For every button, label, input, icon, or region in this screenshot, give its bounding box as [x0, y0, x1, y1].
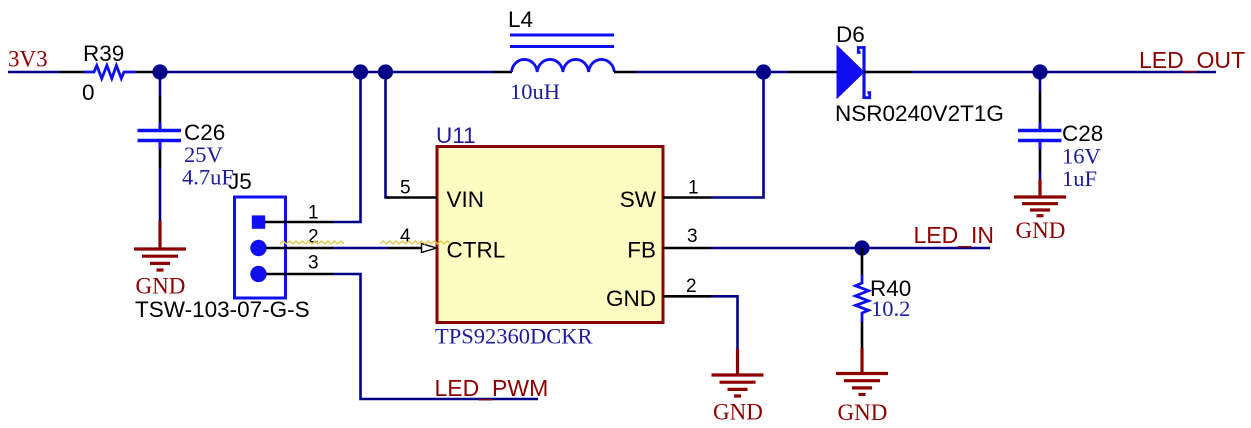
pin R40 top lead [861, 248, 864, 276]
svg-text:J5: J5 [228, 169, 252, 194]
op-amp U1 body (U11 regulator) [435, 123, 663, 349]
svg-text:GND: GND [606, 286, 656, 311]
pin D6 cathode lead [864, 71, 912, 74]
ground GND at C28 [1014, 179, 1066, 216]
pin U11-5 VIN [386, 196, 437, 199]
pin J5-2 lead [266, 247, 333, 250]
wire J5 pin3 to LED_PWM [333, 274, 538, 399]
svg-text:LED_IN: LED_IN [914, 222, 995, 248]
capacitor C26 [138, 120, 234, 190]
svg-text:3: 3 [308, 253, 319, 274]
pin U11-1 SW [663, 196, 711, 199]
pin R39 right lead [136, 71, 157, 74]
pin L4 right lead [614, 71, 636, 74]
node junction at R39/C26 [152, 64, 167, 79]
broken net squiggle right [380, 241, 450, 244]
svg-text:C28: C28 [1062, 121, 1103, 146]
node junction at J5 pin1 riser [353, 64, 368, 79]
svg-text:2: 2 [686, 276, 697, 297]
svg-text:GND: GND [136, 274, 186, 299]
connector J5 [135, 169, 310, 322]
broken net squiggle left [280, 241, 344, 244]
svg-text:0: 0 [82, 80, 95, 105]
wire D6 to LED_OUT [912, 71, 1216, 74]
pin C26 bottom lead [159, 149, 162, 168]
svg-text:GND: GND [838, 400, 888, 425]
pin R39 left lead [60, 71, 85, 74]
svg-text:D6: D6 [836, 22, 865, 47]
inductor L4 [508, 7, 614, 104]
svg-text:25V: 25V [184, 142, 223, 167]
svg-text:CTRL: CTRL [447, 238, 506, 263]
node junction at SW riser [756, 64, 771, 79]
node junction at R40 [854, 240, 869, 255]
pin U11-4 CTRL [388, 247, 422, 250]
svg-text:4.7uF: 4.7uF [182, 165, 234, 190]
wire main rail segment R39 to L4 [153, 71, 493, 74]
wire 3V3 to R39 [8, 71, 60, 74]
pin U11-3 FB [663, 247, 711, 250]
svg-text:LED_OUT: LED_OUT [1139, 47, 1245, 73]
svg-text:10.2: 10.2 [871, 296, 910, 321]
svg-text:1: 1 [688, 178, 699, 199]
ground GND at U11 pin2 [712, 349, 764, 396]
svg-text:5: 5 [400, 178, 411, 199]
ground GND at R40 [836, 348, 888, 395]
resistor R39 [84, 66, 136, 79]
wire SW to rail [711, 72, 764, 198]
wire C26 riser [159, 72, 162, 96]
svg-text:3: 3 [687, 226, 698, 247]
svg-text:TPS92360DCKR: TPS92360DCKR [435, 324, 593, 349]
pin D6 anode lead [788, 71, 838, 74]
wire C28 to GND [1039, 171, 1042, 180]
wire C26 to GND [159, 168, 162, 222]
diode D6 (schottky) [835, 22, 1004, 126]
wire U11 GND pin to ground [711, 296, 738, 350]
svg-text:LED_PWM: LED_PWM [435, 375, 549, 401]
pin C28 top lead [1039, 92, 1042, 124]
svg-text:16V: 16V [1062, 144, 1101, 169]
node junction at VIN riser [378, 64, 393, 79]
pin J5-3 lead [266, 273, 333, 276]
svg-text:FB: FB [627, 238, 656, 263]
node junction at C28 [1032, 64, 1047, 79]
svg-text:1: 1 [308, 203, 319, 224]
wire VIN riser [386, 72, 390, 198]
wire J5 pin1 to rail [333, 72, 361, 222]
svg-text:NSR0240V2T1G: NSR0240V2T1G [835, 101, 1004, 126]
pin C26 top lead [159, 96, 162, 124]
svg-text:L4: L4 [508, 7, 533, 32]
svg-text:SW: SW [620, 187, 657, 212]
pin J5-1 lead [265, 221, 333, 224]
svg-text:GND: GND [1016, 218, 1066, 243]
capacitor C28 [1018, 121, 1103, 191]
svg-text:VIN: VIN [447, 187, 485, 212]
wire FB to LED_IN [711, 247, 990, 250]
svg-text:3V3: 3V3 [8, 47, 48, 72]
wire J5 pin2 to CTRL [333, 247, 388, 250]
wire L4 to D6 [636, 71, 788, 74]
svg-text:2: 2 [308, 227, 319, 248]
pin C28 bottom lead [1039, 149, 1042, 171]
svg-text:U11: U11 [436, 123, 476, 148]
resistor R40 [856, 275, 869, 322]
pin R40 bottom lead [861, 322, 864, 349]
svg-text:10uH: 10uH [510, 79, 560, 104]
wire C28 riser [1039, 72, 1042, 92]
svg-text:TSW-103-07-G-S: TSW-103-07-G-S [135, 297, 310, 322]
pin U11-2 GND [663, 295, 711, 298]
pin L4 left lead [493, 71, 512, 74]
svg-text:R39: R39 [83, 41, 124, 66]
ground GND at C26 [134, 221, 186, 270]
svg-text:1uF: 1uF [1062, 166, 1097, 191]
svg-text:GND: GND [713, 400, 763, 425]
